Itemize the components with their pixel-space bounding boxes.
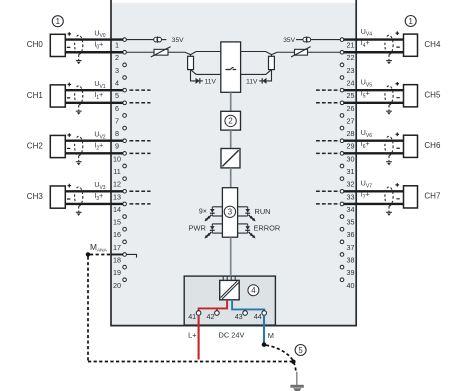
cable shield CH5 xyxy=(385,86,393,105)
terminal 26 pin circle and number xyxy=(340,101,354,113)
wire I_2+ xyxy=(65,152,123,154)
svg-text:10: 10 xyxy=(113,154,121,163)
svg-text:30: 30 xyxy=(347,154,355,163)
svg-text:40: 40 xyxy=(347,281,355,290)
wire M_ANA to terminal 18 (dashed) xyxy=(90,253,111,255)
wire M_ANA terminal segment xyxy=(111,253,124,255)
wire mux to block2 xyxy=(230,92,232,111)
wire block3 to power supply xyxy=(230,237,232,276)
wire U_V1 xyxy=(65,89,123,91)
terminal 33 pin circle and number xyxy=(340,189,354,201)
wire block2 to ADC xyxy=(230,130,232,148)
resistor right xyxy=(269,56,275,69)
block 2 (circled 2) xyxy=(221,111,241,130)
LED ERROR (right bottom) xyxy=(238,224,256,239)
resistor left xyxy=(188,56,194,69)
terminal 27 pin circle and number xyxy=(340,114,354,126)
svg-text:12: 12 xyxy=(113,180,121,189)
shield ground CH5 xyxy=(386,105,392,115)
wire stub (dashed) terminal 13 xyxy=(130,190,151,192)
terminal 30 pin circle and number xyxy=(340,152,354,164)
wire I_4+ xyxy=(344,51,404,53)
LED PWR (left bottom) xyxy=(205,224,223,239)
svg-text:3: 3 xyxy=(228,208,232,217)
DC/DC converter box xyxy=(220,280,240,299)
wire I_3+ xyxy=(65,203,123,205)
wire stub (dashed) terminal 29 xyxy=(316,140,339,142)
svg-text:I6+: I6+ xyxy=(361,141,370,150)
svg-text:43: 43 xyxy=(235,312,243,321)
terminal 28 pin circle and number xyxy=(340,126,354,138)
svg-text:CH5: CH5 xyxy=(424,90,441,99)
terminal 5 pin circle and number xyxy=(115,88,126,100)
svg-text:UV2: UV2 xyxy=(94,131,105,140)
svg-text:15: 15 xyxy=(113,218,121,227)
wire terminal1 to arrester xyxy=(126,39,154,41)
wire resistor node to mux right top xyxy=(241,52,272,55)
wire M external (blue) xyxy=(263,315,265,344)
svg-text:41: 41 xyxy=(188,312,196,321)
svg-text:CH7: CH7 xyxy=(424,191,441,200)
svg-text:CH3: CH3 xyxy=(27,192,44,201)
svg-text:44: 44 xyxy=(254,312,262,321)
terminal 18 pin circle and number xyxy=(113,253,126,265)
svg-text:5: 5 xyxy=(298,346,303,355)
wire U_V4 xyxy=(344,38,404,40)
svg-text:34: 34 xyxy=(347,205,355,214)
svg-text:I4+: I4+ xyxy=(361,40,370,49)
svg-text:25: 25 xyxy=(347,91,355,100)
terminal 29 pin circle and number xyxy=(340,139,354,151)
terminal 41 pin circle and number xyxy=(188,311,201,322)
wire resistor bottom to mux left bottom xyxy=(191,70,221,75)
wire stub (dashed) terminal 33 xyxy=(316,190,339,192)
svg-text:I1+: I1+ xyxy=(94,92,103,101)
svg-text:29: 29 xyxy=(347,142,355,151)
varistor left xyxy=(151,47,171,57)
multiplexer box xyxy=(221,42,241,92)
wire U_V2 xyxy=(65,140,123,142)
terminal 15 pin circle and number xyxy=(113,215,126,227)
wire resistor bottom to mux right bottom xyxy=(241,70,272,75)
svg-text:20: 20 xyxy=(113,281,121,290)
svg-text:37: 37 xyxy=(347,243,355,252)
svg-text:35: 35 xyxy=(347,218,355,227)
svg-text:9×: 9× xyxy=(199,208,207,215)
wire U_V0 xyxy=(65,38,123,40)
svg-text:CH6: CH6 xyxy=(424,141,441,150)
svg-text:1: 1 xyxy=(56,17,60,26)
sensor CH4 xyxy=(396,31,441,56)
terminal 31 pin circle and number xyxy=(340,164,354,176)
sensor CH5 xyxy=(396,82,441,107)
wire stub terminal 43 (blue) xyxy=(244,309,246,310)
terminal 39 pin circle and number xyxy=(340,265,354,277)
module body (grey background) xyxy=(112,3,356,326)
wire stub terminal 42 (red) xyxy=(216,308,218,310)
svg-text:I0+: I0+ xyxy=(94,41,103,50)
svg-text:CH4: CH4 xyxy=(424,40,441,49)
terminal 42 pin circle and number xyxy=(207,311,220,322)
wire M to ground (dashed curve) xyxy=(266,345,296,371)
terminal 2 pin circle and number xyxy=(115,50,126,62)
shield ground CH0 xyxy=(76,55,82,65)
shield ground CH4 xyxy=(386,55,392,65)
zener diode 11V left xyxy=(196,78,203,84)
svg-text:I2+: I2+ xyxy=(94,143,103,152)
svg-text:CH2: CH2 xyxy=(27,141,44,150)
svg-text:1: 1 xyxy=(409,17,413,26)
node bonding junction dot xyxy=(291,360,295,364)
terminal 4 pin circle and number xyxy=(115,76,126,88)
svg-text:13: 13 xyxy=(113,192,121,201)
terminal 11 pin circle and number xyxy=(113,164,126,176)
svg-text:UV3: UV3 xyxy=(94,182,105,191)
svg-text:CH1: CH1 xyxy=(27,91,44,100)
svg-text:32: 32 xyxy=(347,180,355,189)
wire U_V5 xyxy=(344,89,404,91)
terminal 38 pin circle and number xyxy=(340,253,354,265)
wire stub (dashed) terminal 9 xyxy=(130,140,151,142)
terminal 21 pin circle and number xyxy=(340,38,354,50)
terminal 16 pin circle and number xyxy=(113,227,126,239)
cable shield CH4 xyxy=(385,35,393,54)
svg-text:22: 22 xyxy=(347,53,355,62)
wire stub (dashed) terminal 6 xyxy=(130,102,151,104)
varistor right xyxy=(291,47,311,57)
terminal 17 pin circle and number xyxy=(113,240,126,252)
wire stub (dashed) terminal 30 xyxy=(316,152,339,154)
wire stub (dashed) terminal 10 xyxy=(130,152,151,154)
wire stub (dashed) terminal 25 xyxy=(316,89,339,91)
terminal 36 pin circle and number xyxy=(340,227,354,239)
svg-text:I7+: I7+ xyxy=(361,192,370,201)
svg-text:CH0: CH0 xyxy=(27,40,44,49)
svg-text:I3+: I3+ xyxy=(94,193,103,202)
wire resistor top stub left xyxy=(190,54,192,56)
cable shield CH0 xyxy=(75,35,83,54)
terminal 14 pin circle and number xyxy=(113,202,126,214)
terminal 1 pin circle and number xyxy=(115,38,126,50)
shield ground CH7 xyxy=(386,206,392,216)
svg-text:UV4: UV4 xyxy=(361,29,372,38)
wire terminal21 to arrester xyxy=(311,39,341,41)
wire stub (dashed) terminal 34 xyxy=(316,203,339,205)
cable shield CH6 xyxy=(385,136,393,155)
terminal 23 pin circle and number xyxy=(340,63,354,75)
svg-text:5: 5 xyxy=(115,91,119,100)
terminal 34 pin circle and number xyxy=(340,202,354,214)
surge arrester 35V left xyxy=(154,36,167,42)
DC/DC converter top pins xyxy=(223,276,235,280)
svg-text:36: 36 xyxy=(347,230,355,239)
wire terminal2 to varistor xyxy=(126,51,154,53)
sensor CH2 xyxy=(27,133,71,157)
terminal 40 pin circle and number xyxy=(340,278,354,290)
svg-text:L+: L+ xyxy=(188,331,196,340)
svg-text:17: 17 xyxy=(113,243,121,252)
cable shield CH3 xyxy=(75,187,83,206)
svg-text:UV0: UV0 xyxy=(94,30,105,39)
terminal 25 pin circle and number xyxy=(340,88,354,100)
svg-text:19: 19 xyxy=(113,268,121,277)
wire L+ internal (red) xyxy=(199,300,228,311)
wire I_6+ xyxy=(344,152,404,154)
LED RUN (right top) xyxy=(238,207,256,222)
svg-text:33: 33 xyxy=(347,192,355,201)
svg-text:UV1: UV1 xyxy=(94,81,105,90)
wire resistor top stub right xyxy=(271,54,273,56)
svg-text:11V: 11V xyxy=(246,78,258,85)
svg-text:23: 23 xyxy=(347,66,355,75)
circled 4 annotation xyxy=(248,285,259,296)
terminal 3 pin circle and number xyxy=(115,63,126,75)
svg-text:PWR: PWR xyxy=(189,223,206,232)
svg-text:UV5: UV5 xyxy=(361,79,372,88)
wire I_5+ xyxy=(344,102,404,104)
shield ground CH2 xyxy=(76,156,82,166)
svg-text:11V: 11V xyxy=(205,78,217,85)
terminal 10 pin circle and number xyxy=(113,152,126,164)
svg-text:UV7: UV7 xyxy=(361,180,372,189)
cable shield CH2 xyxy=(75,136,83,155)
terminal 43 pin circle and number xyxy=(235,311,248,322)
svg-text:8: 8 xyxy=(115,129,119,138)
wire terminal22 to varistor xyxy=(308,51,341,53)
svg-text:3: 3 xyxy=(115,66,119,75)
svg-text:39: 39 xyxy=(347,268,355,277)
wire resistor node to mux left top xyxy=(191,52,221,55)
svg-text:DC 24V: DC 24V xyxy=(219,331,245,340)
svg-text:ERROR: ERROR xyxy=(254,223,281,232)
svg-text:16: 16 xyxy=(113,230,121,239)
block 3 (circled 3, backplane interface) xyxy=(222,188,237,238)
power supply box xyxy=(184,276,275,325)
ground electrode wire xyxy=(296,372,298,385)
svg-text:M: M xyxy=(268,331,274,340)
svg-text:9: 9 xyxy=(115,142,119,151)
LED group 9x (left top) xyxy=(205,207,223,222)
wire M internal (blue) xyxy=(232,300,264,311)
svg-text:18: 18 xyxy=(113,255,121,264)
svg-text:I5+: I5+ xyxy=(361,91,370,100)
svg-text:26: 26 xyxy=(347,104,355,113)
wire I_7+ xyxy=(344,203,404,205)
terminal 9 pin circle and number xyxy=(115,139,126,151)
wire U_V7 xyxy=(344,190,404,192)
terminal 19 pin circle and number xyxy=(113,265,126,277)
svg-text:31: 31 xyxy=(347,167,355,176)
wire varistor to resistor node left xyxy=(168,52,191,54)
svg-text:38: 38 xyxy=(347,255,355,264)
terminal 13 pin circle and number xyxy=(113,189,126,201)
A/D converter xyxy=(221,149,240,168)
svg-text:UV6: UV6 xyxy=(361,130,372,139)
wire ADC to block3 xyxy=(230,168,232,188)
terminal 8 pin circle and number xyxy=(115,126,126,138)
sensor CH3 xyxy=(27,184,71,208)
surge arrester 35V right xyxy=(296,36,311,42)
wire L+ external (red) xyxy=(198,315,200,359)
terminal 12 pin circle and number xyxy=(113,177,126,189)
node M wire end dot xyxy=(262,342,267,347)
terminal 37 pin circle and number xyxy=(340,240,354,252)
svg-text:11: 11 xyxy=(113,167,120,176)
wire bonding bottom (dashed) xyxy=(88,361,293,363)
circled 1 annotation right xyxy=(405,16,416,27)
wire stub (dashed) terminal 26 xyxy=(316,102,339,104)
circled 5 annotation xyxy=(295,345,306,356)
svg-text:14: 14 xyxy=(113,205,121,214)
cable shield CH7 xyxy=(385,187,393,206)
sensor CH0 xyxy=(27,32,71,56)
module bottom border wire xyxy=(110,325,357,327)
svg-text:MANA: MANA xyxy=(90,242,108,254)
wire stub (dashed) terminal 5 xyxy=(130,89,151,91)
svg-text:27: 27 xyxy=(347,116,355,125)
wire I_0+ xyxy=(65,51,123,53)
terminal 22 pin circle and number xyxy=(340,50,354,62)
terminal 6 pin circle and number xyxy=(115,101,126,113)
svg-text:1: 1 xyxy=(115,41,119,50)
sensor CH7 xyxy=(396,183,441,208)
svg-text:42: 42 xyxy=(207,312,215,321)
svg-text:6: 6 xyxy=(115,104,119,113)
terminal 35 pin circle and number xyxy=(340,215,354,227)
svg-text:28: 28 xyxy=(347,129,355,138)
svg-text:2: 2 xyxy=(228,117,232,126)
terminal 20 pin circle and number xyxy=(113,278,126,290)
svg-text:2: 2 xyxy=(115,53,119,62)
wire U_V3 xyxy=(65,190,123,192)
svg-text:21: 21 xyxy=(347,41,355,50)
cable shield CH1 xyxy=(75,86,83,105)
module right border wire xyxy=(355,0,357,326)
wire resistor bottom to zener left xyxy=(191,70,196,81)
terminal 32 pin circle and number xyxy=(340,177,354,189)
sensor CH6 xyxy=(396,133,441,158)
svg-text:35V: 35V xyxy=(172,37,184,44)
wire U_V6 xyxy=(344,140,404,142)
wire resistor bottom to zener right xyxy=(267,70,272,81)
earth ground symbol xyxy=(290,385,303,391)
terminal 7 pin circle and number xyxy=(115,114,126,126)
wire I_1+ xyxy=(65,102,123,104)
shield ground CH6 xyxy=(386,156,392,166)
svg-text:4: 4 xyxy=(251,286,256,295)
svg-text:4: 4 xyxy=(115,79,119,88)
svg-text:24: 24 xyxy=(347,79,355,88)
wire varistor to resistor node right xyxy=(272,52,295,54)
wire terminal 18 internal hook xyxy=(126,254,136,257)
shield ground CH1 xyxy=(76,105,82,115)
zener diode 11V right xyxy=(259,78,266,84)
sensor CH1 xyxy=(27,83,71,107)
module left border wire xyxy=(110,0,112,326)
wire stub (dashed) terminal 14 xyxy=(130,203,151,205)
wire M_ANA down (dashed) xyxy=(87,256,89,361)
node M_ANA junction dot xyxy=(86,252,90,256)
svg-text:RUN: RUN xyxy=(255,207,271,216)
svg-text:35V: 35V xyxy=(283,37,295,44)
svg-text:7: 7 xyxy=(115,116,119,125)
terminal 44 pin circle and number xyxy=(254,311,267,322)
shield ground CH3 xyxy=(76,206,82,216)
circled 1 annotation left xyxy=(52,16,63,27)
terminal 24 pin circle and number xyxy=(340,76,354,88)
